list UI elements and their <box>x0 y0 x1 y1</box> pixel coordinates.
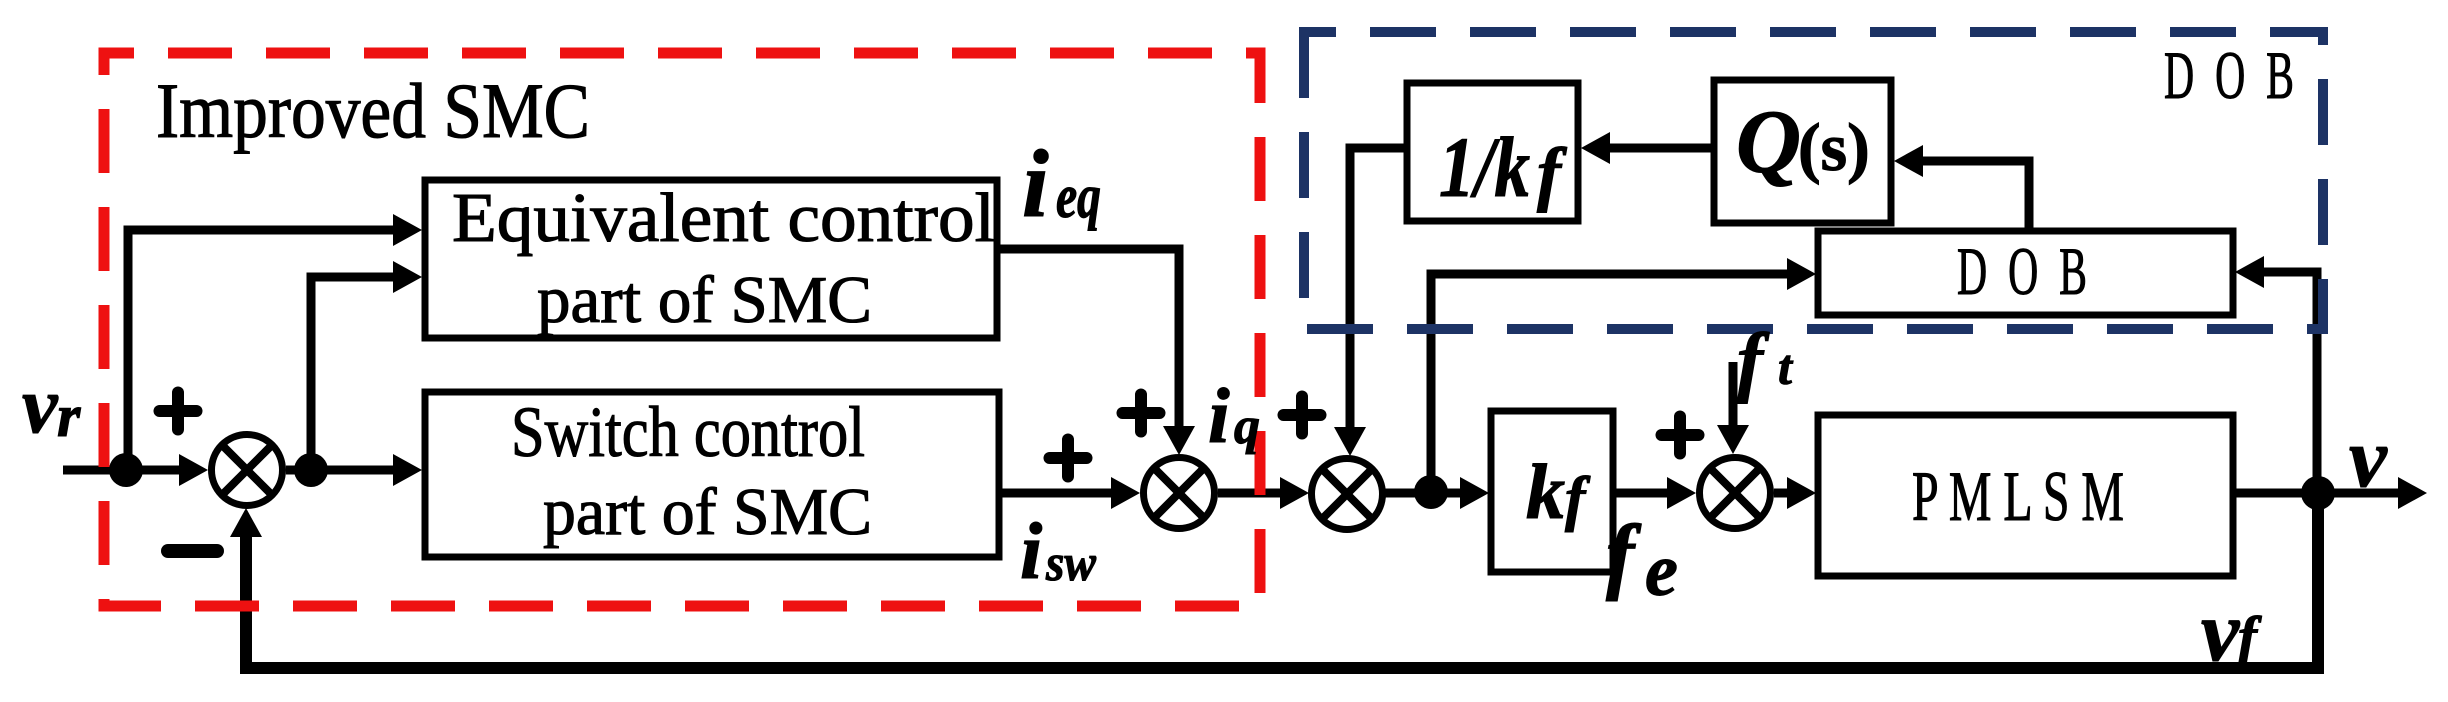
svg-text:v: v <box>2349 411 2388 505</box>
svg-text:k: k <box>1526 448 1565 535</box>
svg-text:P M L S M: P M L S M <box>1912 458 2124 536</box>
svg-text:e: e <box>1645 530 1678 612</box>
svg-text:t: t <box>1778 339 1794 395</box>
svg-text:q: q <box>1234 398 1260 455</box>
svg-text:i: i <box>1208 372 1230 459</box>
svg-text:r: r <box>57 383 81 449</box>
svg-text:sw: sw <box>1045 535 1096 592</box>
svg-text:part of SMC: part of SMC <box>543 475 872 549</box>
svg-text:(s): (s) <box>1798 109 1870 185</box>
svg-text:v: v <box>22 362 59 450</box>
svg-text:1/k: 1/k <box>1439 119 1530 215</box>
svg-text:part of SMC: part of SMC <box>537 263 872 337</box>
svg-text:D O B: D O B <box>1957 233 2087 309</box>
svg-text:Equivalent control: Equivalent control <box>452 180 995 257</box>
svg-text:v: v <box>2201 583 2240 679</box>
svg-text:Switch control: Switch control <box>511 392 865 472</box>
svg-text:f: f <box>2238 606 2262 669</box>
svg-text:Improved SMC: Improved SMC <box>156 67 590 154</box>
svg-text:i: i <box>1020 508 1042 596</box>
svg-text:i: i <box>1022 130 1049 237</box>
svg-text:Q: Q <box>1736 93 1801 192</box>
svg-text:eq: eq <box>1056 163 1101 231</box>
svg-text:f: f <box>1606 508 1642 602</box>
svg-text:D O B: D O B <box>2164 37 2294 113</box>
